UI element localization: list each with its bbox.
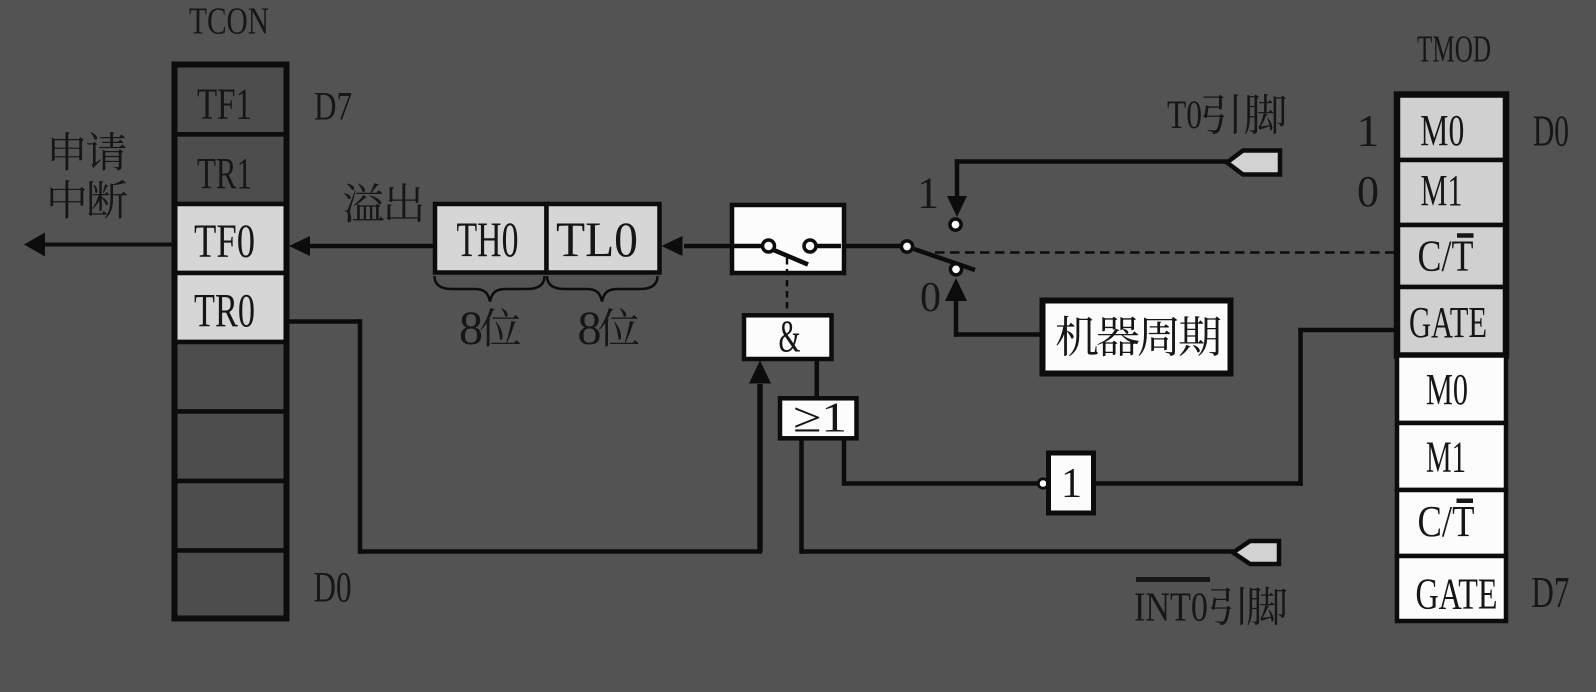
svg-text:TMOD: TMOD <box>1417 29 1491 71</box>
svg-text:C/T: C/T <box>1418 497 1475 546</box>
label INT0引脚 (INT0 pin, active low) <box>1134 580 1287 630</box>
INT0 pin connector symbol <box>1233 541 1279 564</box>
label T0引脚 (T0 pin) <box>1167 92 1286 137</box>
svg-text:8: 8 <box>459 302 483 355</box>
label 申请中断 (request interrupt) <box>50 132 126 219</box>
svg-text:M0: M0 <box>1420 106 1464 155</box>
svg-text:GATE: GATE <box>1409 298 1487 347</box>
svg-text:TCON: TCON <box>189 1 269 43</box>
wire: T0 pin to position 1 <box>955 159 1227 164</box>
NOT gate bubble <box>1038 479 1047 488</box>
arrowhead: into AND gate <box>749 361 771 384</box>
svg-text:0: 0 <box>1357 167 1379 216</box>
TMOD register block timer1 half <box>1397 356 1506 622</box>
arrowhead: interrupt request <box>24 233 45 257</box>
label 8位 under TL0 <box>578 302 639 355</box>
wire: TF0 to interrupt request <box>44 243 174 247</box>
svg-text:T0: T0 <box>1167 92 1202 137</box>
wire: count switch to TL0 <box>684 244 732 249</box>
svg-text:INT0: INT0 <box>1134 584 1208 630</box>
switch contact left <box>763 240 775 252</box>
switch contact right <box>804 240 816 252</box>
svg-text:C/T: C/T <box>1418 232 1474 281</box>
wire: GATE bit to NOT gate <box>1094 481 1303 486</box>
wire: INT0 pin to OR gate <box>799 439 804 554</box>
svg-text:D7: D7 <box>1531 568 1569 617</box>
wire: TR0 to AND gate vertical <box>757 384 763 552</box>
wire stub left inside switch box <box>734 244 763 249</box>
AND gate U1 (&) <box>744 315 832 359</box>
svg-text:TF1: TF1 <box>197 80 252 129</box>
wire: count switch to mode selector <box>843 244 902 249</box>
contact: position 1 <box>950 219 961 230</box>
svg-text:≥1: ≥1 <box>793 396 847 442</box>
wire: TH0 to TF0 <box>310 244 435 249</box>
dashed control line: C/T bit to mode selector <box>935 251 1394 254</box>
register TL0 <box>547 204 660 273</box>
switch arm <box>773 250 809 265</box>
svg-text:D7: D7 <box>314 84 352 129</box>
wire: NOT gate to OR gate <box>842 439 847 486</box>
svg-text:TH0: TH0 <box>457 211 519 267</box>
wire stub right inside switch box <box>814 244 841 249</box>
wire: TR0 run (TCON to AND) <box>289 319 360 324</box>
svg-text:0: 0 <box>920 275 941 321</box>
wire: OR gate to AND gate <box>815 359 820 398</box>
brace under TH0 <box>435 276 545 302</box>
svg-text:D0: D0 <box>1533 107 1569 156</box>
svg-text:M1: M1 <box>1421 166 1463 215</box>
svg-text:1: 1 <box>1061 461 1082 507</box>
TMOD bit C/T (timer0) <box>1418 232 1474 281</box>
svg-text:TF0: TF0 <box>194 215 255 268</box>
svg-text:&: & <box>779 311 801 362</box>
svg-text:M0: M0 <box>1426 365 1468 414</box>
svg-text:1: 1 <box>1357 105 1380 156</box>
svg-text:TL0: TL0 <box>556 211 638 267</box>
TCON register block <box>175 65 287 619</box>
register TH0 <box>435 204 547 273</box>
svg-text:GATE: GATE <box>1416 570 1498 619</box>
svg-text:M1: M1 <box>1426 433 1466 482</box>
mode selector pivot contact <box>901 241 912 252</box>
svg-text:1: 1 <box>917 169 939 218</box>
dashed control line: AND gate to count switch <box>786 258 789 313</box>
svg-text:D0: D0 <box>314 565 352 612</box>
svg-text:TR0: TR0 <box>194 285 255 338</box>
switch box (count enable) <box>732 205 844 273</box>
TMOD bit C/T (timer1) <box>1418 497 1475 546</box>
wire: machine cycle to position 0 <box>954 298 959 337</box>
arrowhead: down to position 1 <box>947 196 967 217</box>
machine cycle box 机器周期 <box>1043 301 1231 374</box>
arrowhead: into TF0 <box>289 236 310 256</box>
T0 pin connector symbol <box>1227 151 1280 175</box>
mode selector arm <box>914 249 975 270</box>
mode selector lower contact <box>950 264 961 275</box>
TMOD register block timer0 half (shaded) <box>1397 95 1506 356</box>
NOT gate U3 (1) <box>1049 453 1094 513</box>
OR gate U2 (>=1) <box>780 398 857 438</box>
brace under TL0 <box>547 276 658 302</box>
label 溢出 (overflow) <box>344 183 422 222</box>
arrowhead: into TL0 <box>662 236 683 256</box>
svg-text:8: 8 <box>578 302 602 355</box>
label 8位 under TH0 <box>459 302 520 355</box>
svg-text:TR1: TR1 <box>197 149 252 198</box>
arrowhead: up to position 0 <box>945 278 967 301</box>
